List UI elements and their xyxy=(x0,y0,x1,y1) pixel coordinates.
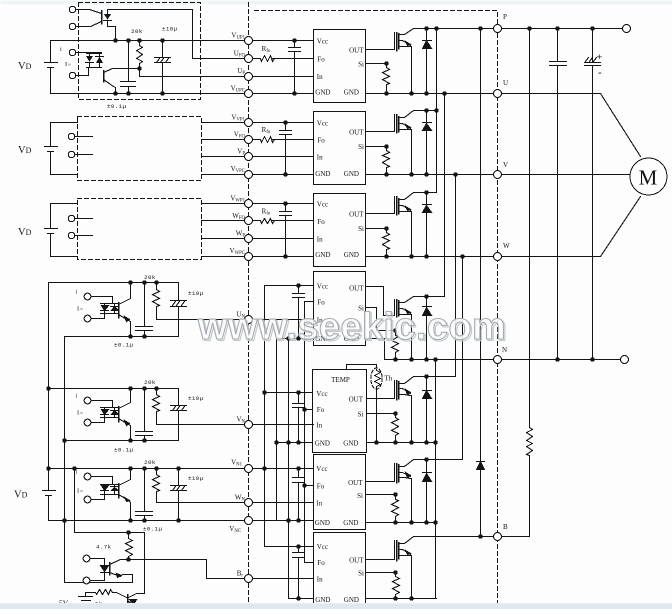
wire VD3 to box3 xyxy=(51,204,78,257)
wire Th to GND5 rail xyxy=(376,387,378,443)
capacitor 0.1u (UN) xyxy=(136,283,153,337)
svg-text:4.7k: 4.7k xyxy=(96,544,112,551)
resistor Si6 xyxy=(392,495,399,523)
capacitor C-IC5 xyxy=(293,393,305,443)
lower opto UN: top rail xyxy=(49,282,179,284)
resistor Si5 xyxy=(392,414,399,443)
wire IGBT4 collector to U riser xyxy=(414,296,445,298)
wire VD1+ rail (VUP1 net) xyxy=(51,40,314,42)
svg-text:Si: Si xyxy=(358,570,364,578)
junction dots N rail xyxy=(393,357,397,361)
svg-text:Fo: Fo xyxy=(317,56,325,64)
wire GND7 left xyxy=(289,598,314,600)
wire IGBT3 collector to P riser xyxy=(414,192,437,194)
svg-text:In: In xyxy=(317,154,323,162)
svg-text:Fo: Fo xyxy=(317,483,325,491)
svg-text:In: In xyxy=(317,73,323,81)
brake resistor riser xyxy=(527,29,533,537)
wire UFO jog down xyxy=(192,10,194,59)
resistor Si7 xyxy=(393,573,400,599)
wire VFO row with resistor Rfo2 xyxy=(202,139,314,141)
svg-text:P: P xyxy=(503,13,507,21)
input circles section3 xyxy=(68,215,74,221)
svg-text:±0.1µ: ±0.1µ xyxy=(114,342,134,349)
resistor 20k (UN) xyxy=(153,283,160,320)
svg-text:Si: Si xyxy=(358,411,364,419)
wire Br output xyxy=(129,560,314,579)
V feed riser xyxy=(455,175,457,377)
wire OUT3 to IGBT3 gate xyxy=(366,197,395,214)
wire N rail xyxy=(385,359,493,361)
svg-text:Fo: Fo xyxy=(317,559,325,567)
svg-text:OUT: OUT xyxy=(349,557,364,565)
junction dots GND6 rail xyxy=(393,520,397,524)
svg-text:V: V xyxy=(503,161,508,169)
svg-text:Th: Th xyxy=(385,375,393,383)
battery VD4 xyxy=(43,283,56,521)
terminal VN1 xyxy=(245,465,253,473)
Fo riser (lower) xyxy=(304,302,306,563)
capacitor 10u electrolytic (section1) xyxy=(155,41,171,63)
wire VD1- rail (VUPC net / U GND) xyxy=(51,93,314,95)
svg-text:GND: GND xyxy=(344,251,359,259)
capacitor 10u (VN) xyxy=(171,389,187,441)
svg-text:VD: VD xyxy=(18,145,32,156)
svg-text:20k: 20k xyxy=(144,459,156,466)
wire NPN collector riser xyxy=(129,533,145,598)
svg-text:20k: 20k xyxy=(131,28,143,35)
capacitor C-IC2 xyxy=(280,123,292,175)
FWD diode D3 xyxy=(423,193,432,257)
resistor 20k (WN) xyxy=(153,469,160,503)
terminal V xyxy=(494,171,502,179)
input circles fault opto U xyxy=(69,6,75,12)
junction dot B rail xyxy=(478,534,482,538)
wire WFO row with resistor Rfo3 xyxy=(202,220,314,222)
wire Si3 to resistor xyxy=(366,228,387,230)
svg-text:±10µ: ±10µ xyxy=(188,395,204,402)
terminal VWPC xyxy=(245,253,253,261)
svg-text:±0.1µ: ±0.1µ xyxy=(114,447,134,454)
wire GND6 rail xyxy=(366,522,437,524)
GND riser B (lower) xyxy=(288,339,290,599)
svg-text:±10µ: ±10µ xyxy=(188,475,204,482)
wire V GND rail right xyxy=(366,174,493,176)
wire GND7 rail xyxy=(366,598,437,600)
resistor 20k (VN) xyxy=(153,389,160,425)
terminal VN xyxy=(245,421,253,429)
section2 input circle stubs xyxy=(76,137,93,155)
IGBT7 brake xyxy=(396,541,398,561)
diode at NPN emitter xyxy=(130,605,137,607)
wire VVP1 row xyxy=(202,122,314,124)
wire Si5 to resistor xyxy=(367,413,396,415)
fault opto U: LED xyxy=(104,10,193,41)
resistor Rfo1 xyxy=(261,56,275,62)
lower opto UN: LED pair xyxy=(101,304,119,314)
lower opto WN: top rail = VN1 row xyxy=(49,468,314,470)
terminal N xyxy=(494,356,502,364)
N riser (lower) xyxy=(435,360,437,599)
svg-text:VD: VD xyxy=(18,61,32,72)
svg-text:VD: VD xyxy=(18,227,32,238)
svg-text:I ≈: I ≈ xyxy=(77,410,83,417)
dashed interface box section 1 xyxy=(79,3,201,100)
module boundary dashed (top and right edge) xyxy=(255,11,498,609)
battery VD3 xyxy=(45,204,58,257)
svg-text:In: In xyxy=(317,236,323,244)
junction dots IC1/U-phase xyxy=(292,38,296,42)
svg-text:Vcc: Vcc xyxy=(316,465,327,473)
dashed interface box section 3 xyxy=(78,199,202,260)
wire UFO row with resistor Rfo1 xyxy=(193,58,314,60)
input circles section2 xyxy=(68,133,74,139)
wire VVPC row (V GND) xyxy=(202,174,314,176)
resistor 1k xyxy=(86,590,127,598)
brake opto: LED xyxy=(101,566,109,573)
svg-text:GND: GND xyxy=(315,170,330,178)
wire Si2 to resistor xyxy=(366,146,387,148)
svg-text:Vcc: Vcc xyxy=(317,38,328,46)
terminal VP xyxy=(245,153,253,161)
capacitor C-IC4 xyxy=(293,286,305,339)
svg-text:20k: 20k xyxy=(144,274,156,281)
IGBT4 U low-side xyxy=(396,300,398,317)
section3 input circle stubs xyxy=(76,219,93,236)
lower opto VN: top rail xyxy=(49,388,179,390)
5V ground symbol xyxy=(79,593,93,605)
wire OUT1 to IGBT1 gate xyxy=(366,33,395,50)
svg-text:OUT: OUT xyxy=(349,46,364,54)
svg-text:VD: VD xyxy=(14,490,28,501)
wire Fo5 xyxy=(305,409,313,411)
wire Vcc4 xyxy=(265,285,314,287)
wire VWPC row (W GND) xyxy=(202,256,314,258)
wire UP row xyxy=(140,76,314,78)
IGBT1 U high-side xyxy=(396,33,398,51)
lower opto UN: input stubs xyxy=(92,297,113,319)
wire 20k node to transistor collector xyxy=(113,68,140,70)
svg-text:GND: GND xyxy=(344,596,359,604)
junction dots VN1 row xyxy=(46,466,50,470)
junction dots section1 xyxy=(113,38,117,42)
lower opto VN: phototransistor xyxy=(118,407,120,422)
lower opto UN: bottom rail xyxy=(65,336,179,338)
svg-text:Vcc: Vcc xyxy=(317,283,328,291)
terminal Br xyxy=(245,575,253,583)
capacitor C-IC6 xyxy=(293,469,305,521)
svg-text:Si: Si xyxy=(358,143,364,151)
svg-text:OUT: OUT xyxy=(349,285,364,293)
svg-text:GND: GND xyxy=(343,440,358,448)
IGBT5 V low-side xyxy=(396,381,398,400)
svg-text:Si: Si xyxy=(358,60,364,68)
input circles command opto U xyxy=(69,49,75,55)
svg-text:I ≈: I ≈ xyxy=(77,306,83,313)
capacitor C-IC1 xyxy=(289,41,301,94)
capacitor 10u (WN) xyxy=(171,469,187,521)
IGBT2 V high-side xyxy=(396,115,398,133)
terminal UN xyxy=(245,316,253,324)
IC7 driver box xyxy=(314,533,366,607)
lower opto VN: LED pair xyxy=(101,408,119,418)
wire Vcc5 xyxy=(265,392,313,394)
capacitor 0.1u (VN) xyxy=(136,389,153,441)
capacitor C-IC3 xyxy=(280,204,292,257)
input circles opto WN xyxy=(84,473,91,480)
svg-text:20k: 20k xyxy=(144,379,156,386)
wire OUT4 jog to IGBT4 gate xyxy=(366,287,395,316)
terminal VVPC xyxy=(245,171,253,179)
svg-text:U: U xyxy=(503,79,508,87)
FWD diode D1 xyxy=(423,29,432,94)
wire B rail external xyxy=(502,536,530,538)
wire Fo6 xyxy=(305,485,314,487)
capacitor 0.1u (WN) xyxy=(136,469,153,521)
svg-text:B: B xyxy=(503,523,508,531)
svg-text:OUT: OUT xyxy=(349,211,364,219)
svg-text:Vcc: Vcc xyxy=(316,390,327,398)
VNC chain riser xyxy=(64,337,66,583)
wire Vcc7 xyxy=(265,546,314,548)
svg-text:±0.1µ: ±0.1µ xyxy=(107,103,127,110)
junction dots GND5 rail xyxy=(374,440,378,444)
P riser to V/W collectors xyxy=(436,29,438,193)
svg-text:OUT: OUT xyxy=(349,396,364,404)
junction dots IC3/W-phase xyxy=(283,201,287,205)
wire GND5 left xyxy=(277,442,313,444)
wire Si1 to resistor xyxy=(366,63,387,65)
wire Fo4 xyxy=(305,301,314,303)
wire P rail (module side) xyxy=(414,28,493,30)
capacitor bus film xyxy=(550,29,567,360)
junction dots brake opto xyxy=(126,530,130,534)
svg-text:I ≈: I ≈ xyxy=(77,488,83,495)
svg-text:Si: Si xyxy=(357,492,363,500)
wire VWP1 row xyxy=(202,203,314,205)
wire GND5 rail xyxy=(367,442,437,444)
junction dots opto UN xyxy=(128,280,132,284)
wire Si6 to resistor xyxy=(366,494,396,496)
wire IGBT2 collector to P riser xyxy=(414,110,437,112)
wire B rail (module side) xyxy=(414,536,493,538)
U feed riser xyxy=(444,94,446,297)
wire Si4 jog to resistor xyxy=(366,308,396,331)
wire OUT5 to IGBT5 gate xyxy=(367,381,395,399)
IC3 driver box xyxy=(314,194,366,267)
resistor Rfo3 xyxy=(261,219,275,224)
svg-text:GND: GND xyxy=(343,519,358,527)
terminal UP xyxy=(245,73,253,81)
FWD diode D2 xyxy=(423,111,432,175)
svg-text:W: W xyxy=(503,242,510,250)
resistor Si4 xyxy=(392,331,399,360)
wire V rail to motor xyxy=(502,174,630,176)
lower opto VN: input stubs xyxy=(92,401,113,423)
wire VN row xyxy=(157,424,314,426)
Vcc riser (lower) xyxy=(264,286,266,547)
thermistor Th wire xyxy=(347,365,377,370)
capacitor 10u (UN) xyxy=(171,283,187,337)
junction dots VNC row xyxy=(62,518,66,522)
dashed interface box section 2 xyxy=(78,117,202,181)
FWD diode D4 xyxy=(423,297,432,360)
svg-text:I ≈: I ≈ xyxy=(65,61,71,68)
IC1 driver box xyxy=(314,30,366,103)
svg-text:+: + xyxy=(597,52,603,63)
junction dots GND7 rail xyxy=(393,596,397,600)
svg-text:In: In xyxy=(317,576,323,584)
terminal VUP1 xyxy=(245,37,253,45)
thermistor Th xyxy=(371,368,382,389)
svg-text:Fo: Fo xyxy=(317,218,325,226)
resistor Rfo2 xyxy=(261,137,275,143)
svg-text:In: In xyxy=(316,422,322,430)
terminal B xyxy=(494,533,502,541)
fault opto U: stubs xyxy=(77,10,91,27)
svg-text:OUT: OUT xyxy=(348,479,363,487)
command opto U: phototransistor xyxy=(103,71,105,82)
svg-text:±0.1µ: ±0.1µ xyxy=(143,526,163,533)
input circles opto VN xyxy=(84,397,91,404)
svg-text:Fo: Fo xyxy=(317,406,325,414)
resistor Si3 xyxy=(383,229,390,257)
top page band xyxy=(1,1,672,5)
IC6 driver box xyxy=(314,455,366,530)
W feed riser xyxy=(462,257,464,460)
open terminal P+ xyxy=(623,25,631,33)
svg-text:TEMP: TEMP xyxy=(331,376,350,384)
terminal VUPC xyxy=(245,90,253,98)
junction dots bus caps on N rail xyxy=(555,357,559,361)
svg-text:±10µ: ±10µ xyxy=(162,26,178,33)
fault opto U: transistor xyxy=(101,11,103,24)
svg-text:±10µ: ±10µ xyxy=(188,290,204,297)
terminal WP xyxy=(245,235,253,243)
terminal VFO xyxy=(245,136,253,144)
wire VP row xyxy=(202,156,314,158)
IC4 driver box xyxy=(314,272,366,346)
lower opto WN: phototransistor xyxy=(118,484,120,498)
svg-text:GND: GND xyxy=(315,519,330,527)
lower opto WN: LED pair xyxy=(101,485,119,495)
input circles brake opto xyxy=(83,555,90,562)
wire OUT6 to IGBT6 gate xyxy=(366,464,395,482)
brake opto: phototransistor xyxy=(109,563,111,575)
lower opto WN: input stubs xyxy=(92,477,113,500)
motor M xyxy=(630,158,667,195)
FWD diode D6 xyxy=(423,460,432,523)
brake clamp diode xyxy=(477,29,485,537)
terminal U xyxy=(494,90,502,98)
wire OUT2 to IGBT2 gate xyxy=(366,115,395,132)
IGBT6 W low-side xyxy=(396,464,398,483)
junction dots opto VN xyxy=(46,386,50,390)
wire Si7 to resistor xyxy=(366,572,396,574)
junction dots IC2/V-phase xyxy=(283,120,287,124)
open terminal N- xyxy=(621,356,629,364)
wire W GND rail right xyxy=(366,256,493,258)
lower opto WN: bottom rail = VNC row xyxy=(49,520,314,522)
svg-text:GND: GND xyxy=(344,170,359,178)
svg-text:www.seekic.com: www.seekic.com xyxy=(197,306,506,348)
svg-text:GND: GND xyxy=(315,89,330,97)
battery VD2 xyxy=(45,123,58,175)
FWD diode D5 xyxy=(423,377,432,443)
capacitor 0.1u (section1) xyxy=(121,41,136,94)
wire WP row xyxy=(202,238,314,240)
terminal VNC xyxy=(245,517,253,525)
resistor Si2 xyxy=(383,147,390,175)
svg-text:In: In xyxy=(316,500,322,508)
input circles opto UN xyxy=(84,293,91,300)
battery VD1 xyxy=(45,41,58,94)
wire W rail to motor xyxy=(502,197,641,257)
command opto U: stubs and LED pair xyxy=(76,53,102,76)
terminal VVP1 xyxy=(245,119,253,127)
svg-text:-: - xyxy=(598,67,602,79)
svg-text:Vcc: Vcc xyxy=(317,543,328,551)
bottom page band xyxy=(0,604,672,609)
left terminal dashed line xyxy=(248,3,250,609)
lower opto VN: bottom rail xyxy=(65,440,179,442)
wire UN row xyxy=(157,319,314,321)
terminal WFO xyxy=(245,217,253,225)
resistor 4.7k xyxy=(126,533,133,560)
brake opto: input stubs xyxy=(91,559,105,581)
NPN transistor xyxy=(127,595,129,605)
svg-text:Si: Si xyxy=(358,225,364,233)
wire GND4 to N rail xyxy=(366,339,385,360)
svg-text:GND: GND xyxy=(344,89,359,97)
terminal P xyxy=(494,25,502,33)
svg-text:GND: GND xyxy=(315,440,330,448)
svg-text:Vcc: Vcc xyxy=(317,120,328,128)
brake opto: 4.7k feed wire xyxy=(75,469,145,533)
wire GND4 left xyxy=(277,338,314,340)
lower opto UN: phototransistor xyxy=(118,303,120,318)
svg-text:GND: GND xyxy=(315,596,330,604)
svg-text:Fo: Fo xyxy=(317,137,325,145)
terminal W xyxy=(494,253,502,261)
wire WN row xyxy=(157,502,314,504)
resistor Si1 xyxy=(383,64,390,94)
wire VD2 to box2 xyxy=(51,123,78,175)
junction dots lower risers xyxy=(296,283,300,287)
wire OUT7 to IGBT7 gate xyxy=(366,541,395,560)
svg-text:GND: GND xyxy=(315,251,330,259)
wire IGBT6 collector to W riser xyxy=(414,459,463,461)
wire U GND rail right xyxy=(366,93,493,95)
wire P rail external xyxy=(502,28,622,30)
resistor 20k (section1) xyxy=(137,41,143,77)
terminal VWP1 xyxy=(245,200,253,208)
svg-text:Vcc: Vcc xyxy=(317,201,328,209)
terminal WN xyxy=(245,499,253,507)
wire N rail external xyxy=(502,359,621,361)
IGBT3 W high-side xyxy=(396,197,398,215)
svg-text:M: M xyxy=(639,166,658,190)
IC2 driver box xyxy=(314,112,366,185)
IC5 driver box xyxy=(313,370,367,453)
terminal UFO xyxy=(245,55,253,63)
GND riser A (lower) xyxy=(276,339,278,521)
wire IGBT5 collector to V riser xyxy=(414,376,456,378)
capacitor bus electrolytic xyxy=(585,29,601,360)
svg-text:OUT: OUT xyxy=(349,129,364,137)
capacitor C-IC7 xyxy=(293,547,305,599)
wire U rail to motor xyxy=(502,94,641,157)
